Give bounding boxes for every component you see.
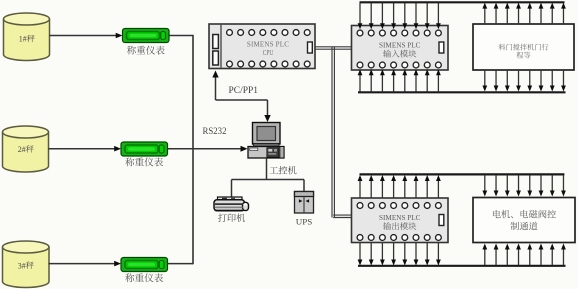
svg-text:SIMENS PLC: SIMENS PLC [247,40,289,48]
svg-text:PC/PP1: PC/PP1 [229,85,259,95]
svg-text:2#: 2# [18,145,26,154]
svg-text:1#: 1# [19,35,27,44]
svg-text:SIMENS PLC: SIMENS PLC [379,40,421,49]
svg-text:3#: 3# [18,261,26,270]
svg-text:UPS: UPS [296,216,313,226]
svg-text:CPU: CPU [263,49,274,57]
svg-text:SIMENS PLC: SIMENS PLC [379,213,421,222]
svg-text:RS232: RS232 [203,126,227,136]
